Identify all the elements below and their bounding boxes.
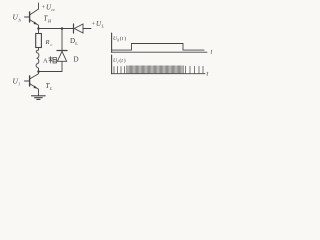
transistor TH base bar — [29, 12, 31, 22]
wire node A to diode DL — [39, 28, 74, 30]
wire node B down to diode D — [61, 29, 63, 51]
inductor coil phase A winding — [36, 50, 39, 72]
node C junction dot — [37, 70, 40, 73]
chopped pulse train sparse left — [114, 67, 125, 74]
svg-text:R: R — [45, 39, 50, 46]
wire diode D down and left to node C — [39, 61, 63, 71]
node A junction dot — [37, 27, 40, 30]
node B junction dot — [61, 27, 64, 30]
svg-text:D: D — [74, 56, 79, 64]
svg-text:D: D — [70, 37, 75, 45]
hand-drawn CJK char xiang (相) — [49, 57, 57, 64]
svg-text:t: t — [211, 49, 213, 56]
bottom plot y-axis — [111, 55, 113, 74]
svg-text:A: A — [43, 58, 48, 65]
label Ul(t) bottom plot — [113, 57, 126, 64]
label transistor TH — [44, 15, 53, 24]
svg-text:+: + — [92, 20, 96, 27]
label UH input — [13, 13, 22, 23]
label A-phase (A xiang) — [43, 58, 48, 65]
label resistor Rc — [45, 39, 53, 47]
wire diode DL to +UL — [83, 28, 91, 30]
svg-text:L: L — [75, 41, 78, 46]
svg-text:+: + — [42, 4, 46, 11]
chopped pulse train dense block — [127, 66, 183, 74]
label +Ucc supply — [42, 4, 56, 13]
diode D cathode bar — [57, 50, 67, 52]
diode DL cathode bar — [73, 24, 75, 33]
transistor TL base lead — [25, 80, 30, 82]
diode D triangle — [57, 51, 66, 61]
ground symbol — [32, 96, 46, 100]
bottom plot x-axis — [112, 73, 205, 75]
label transistor TL — [46, 82, 54, 91]
transistor TL emitter lead with arrow — [30, 84, 39, 96]
label +UL supply — [92, 20, 105, 29]
diode DL triangle — [74, 24, 83, 33]
label Uh(t) top plot — [113, 35, 126, 42]
resistor Rc body — [36, 34, 42, 48]
transistor TL base bar — [29, 76, 31, 86]
top waveform pulse — [112, 44, 204, 51]
label t top axis — [211, 49, 213, 56]
label diode DL — [70, 37, 78, 46]
svg-text:t: t — [207, 71, 209, 78]
svg-text:L: L — [49, 86, 53, 91]
svg-text:): ) — [124, 57, 126, 64]
svg-text:l: l — [117, 60, 118, 64]
label diode D — [74, 56, 79, 64]
resistor Rc stub bottom — [38, 48, 40, 51]
svg-text:): ) — [124, 35, 126, 42]
svg-text:L: L — [101, 24, 105, 29]
label t bottom axis — [207, 71, 209, 78]
transistor TL collector lead — [30, 72, 39, 80]
svg-text:cc: cc — [52, 7, 56, 12]
transistor TH collector lead — [30, 3, 39, 15]
transistor TH emitter lead with arrow — [30, 20, 39, 29]
top plot x-axis — [112, 51, 207, 53]
transistor TH base lead — [25, 16, 30, 18]
chopped pulse train sparse right — [186, 66, 204, 73]
top plot y-axis — [111, 33, 113, 52]
svg-text:c: c — [51, 42, 53, 47]
resistor Rc stub top — [38, 29, 40, 34]
label UL input — [13, 77, 21, 87]
